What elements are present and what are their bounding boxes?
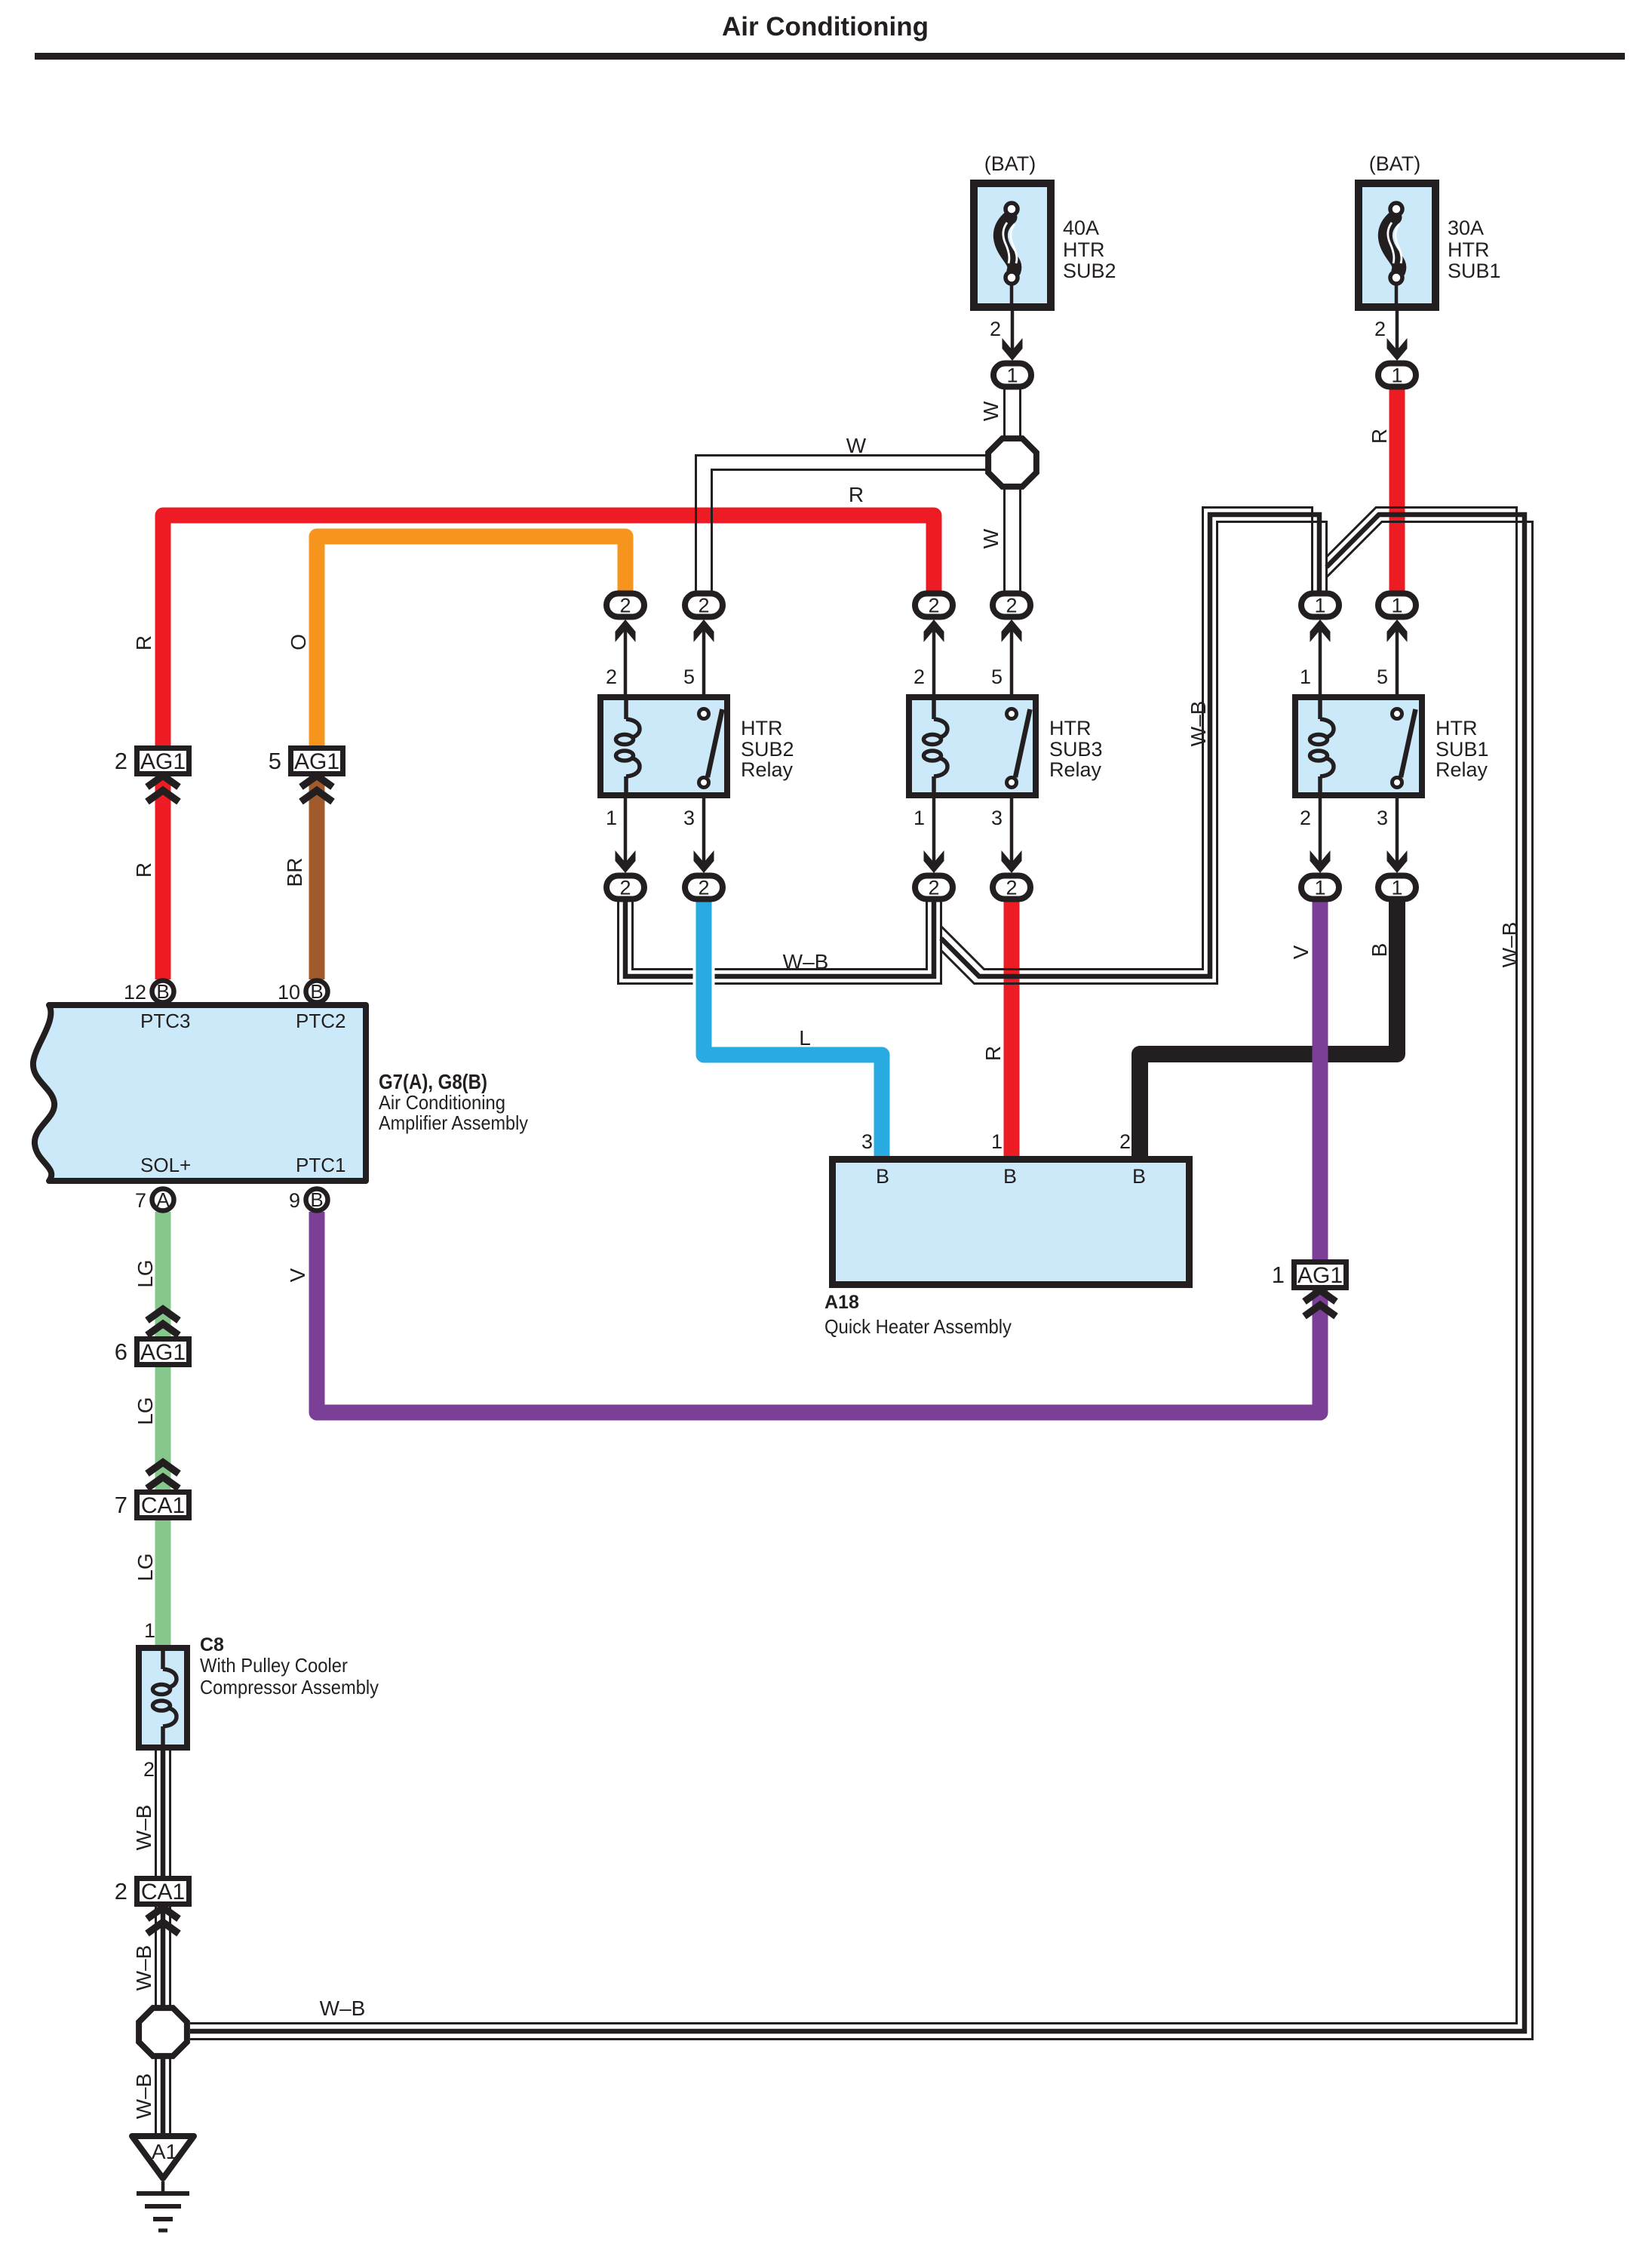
relay HTR SUB2 (600, 666, 794, 829)
svg-text:BR: BR (283, 858, 306, 887)
wire V : relay SUB1 pin 2 down to AG1-1 (1313, 900, 1328, 1261)
svg-text:2: 2 (619, 595, 631, 617)
pin line above relay (x=933) (702, 626, 706, 694)
svg-text:5: 5 (269, 748, 281, 774)
svg-text:B: B (156, 980, 169, 1003)
svg-text:Quick Heater Assembly: Quick Heater Assembly (824, 1315, 1012, 1338)
svg-text:1: 1 (1314, 877, 1325, 899)
wire L : relay SUB2 pin 3 down and right to A18 pin 3 (704, 900, 882, 1157)
svg-text:2: 2 (1300, 807, 1311, 829)
svg-text:5: 5 (1377, 666, 1388, 688)
pin line below relay (x=1341) (1010, 798, 1014, 868)
svg-text:W–B: W–B (1498, 922, 1521, 968)
chevrons below AG1-2 (147, 776, 179, 802)
connector node 1 below fuse SUB2 (993, 364, 1031, 387)
svg-text:W–B: W–B (320, 1997, 366, 2020)
svg-text:B: B (310, 980, 323, 1003)
svg-text:B: B (876, 1165, 889, 1188)
connector AG1 pin 6 (115, 1339, 189, 1365)
heater A18 Quick Heater Assembly (833, 1160, 1190, 1285)
svg-text:2: 2 (990, 318, 1001, 340)
arrow down into connector (x=1238) (924, 850, 944, 873)
pin line below relay (x=1238) (932, 798, 936, 868)
svg-text:Compressor Assembly: Compressor Assembly (200, 1676, 379, 1698)
pin line below relay (x=933) (702, 798, 706, 868)
pin 2 of fuse SUB1 (1396, 311, 1399, 355)
svg-text:W–B: W–B (132, 1805, 155, 1851)
svg-text:2: 2 (1006, 877, 1017, 899)
wire O : AG1-5 up and across to HTR SUB2 relay pin 2 (317, 536, 625, 747)
svg-text:2: 2 (619, 877, 631, 899)
svg-text:7: 7 (115, 1492, 127, 1518)
svg-text:W–B: W–B (132, 2073, 155, 2120)
pin line below relay (x=829) (624, 798, 628, 868)
svg-text:W: W (979, 401, 1003, 421)
connector node 2 above relay (x=829) (606, 594, 644, 617)
svg-text:3: 3 (683, 807, 695, 829)
svg-text:1: 1 (914, 807, 925, 829)
svg-text:2: 2 (606, 666, 617, 688)
svg-text:LG: LG (134, 1553, 157, 1581)
connector CA1 pin 7 (115, 1492, 189, 1518)
connector node 2 below relay (x=829) (606, 876, 644, 899)
pin 9 B (PTC1) (289, 1188, 328, 1212)
wire B : relay SUB1 pin 3 down and left to A18 pin 2 (1140, 900, 1397, 1157)
wire LG : amplifier pin 7 (SOL+) down to AG1-6 (155, 1212, 171, 1338)
svg-text:2: 2 (698, 595, 709, 617)
chevrons above CA1-7 (147, 1462, 179, 1489)
svg-text:1: 1 (1300, 666, 1311, 688)
svg-text:Relay: Relay (1049, 758, 1102, 781)
svg-text:Relay: Relay (741, 758, 794, 781)
chevrons below AG1-1 (1304, 1290, 1336, 1317)
svg-text:A1: A1 (152, 2140, 177, 2163)
wire W-B : relay SUB2 pin 1 joining relay SUB3 pin 1 (619, 900, 941, 984)
svg-text:AG1: AG1 (140, 1340, 186, 1365)
compressor C8 coil (139, 1648, 187, 1748)
svg-text:1: 1 (1391, 877, 1402, 899)
connector node 2 above relay (x=933) (685, 594, 723, 617)
svg-text:SUB1: SUB1 (1436, 738, 1489, 761)
svg-text:2: 2 (698, 877, 709, 899)
wire LG : AG1-6 to CA1-7 (155, 1363, 171, 1491)
svg-text:1: 1 (1391, 595, 1402, 617)
svg-text:2: 2 (143, 1758, 155, 1781)
pin line above relay (x=1852) (1396, 626, 1399, 694)
svg-text:12: 12 (124, 981, 146, 1004)
connector node 1 above relay (x=1750) (1301, 594, 1339, 617)
wire R : amplifier PTC3 / AG1-2 up, across to HTR SUB3 relay pin 2 (163, 515, 934, 747)
svg-text:G7(A), G8(B): G7(A), G8(B) (379, 1070, 487, 1093)
svg-text:Air Conditioning: Air Conditioning (379, 1091, 505, 1114)
relay HTR SUB1 (1295, 666, 1489, 829)
connector node 1 below relay (x=1852) (1378, 876, 1416, 899)
svg-text:2: 2 (1119, 1130, 1131, 1153)
svg-text:(BAT): (BAT) (1369, 152, 1421, 175)
pin 2 of fuse SUB2 (1011, 311, 1015, 355)
svg-text:7: 7 (135, 1189, 146, 1212)
svg-text:PTC3: PTC3 (140, 1010, 190, 1032)
svg-text:PTC1: PTC1 (296, 1154, 345, 1176)
svg-text:(BAT): (BAT) (984, 152, 1036, 175)
svg-text:1: 1 (991, 1130, 1003, 1153)
ECU G7(A),G8(B) Air Conditioning Amplifier Assembly (33, 1005, 366, 1181)
svg-text:2: 2 (115, 748, 127, 774)
svg-text:W: W (979, 528, 1003, 549)
arrow up into connector (x=829) (616, 619, 636, 642)
svg-text:C8: C8 (200, 1634, 224, 1655)
wire R : relay SUB3 pin 3 down to A18 pin 1 (1004, 900, 1020, 1157)
connector CA1 pin 2 (115, 1878, 189, 1904)
pin line above relay (x=1238) (932, 626, 936, 694)
arrow down into connector (x=1750) (1310, 850, 1331, 873)
svg-text:A18: A18 (824, 1292, 859, 1313)
svg-text:3: 3 (1377, 807, 1388, 829)
A18 pin numbers and terminals (861, 1130, 1146, 1188)
svg-text:2: 2 (928, 877, 939, 899)
svg-text:HTR: HTR (1049, 717, 1092, 739)
svg-text:B: B (1132, 1165, 1146, 1188)
arrow down into connector (x=829) (616, 850, 636, 873)
chevrons below AG1-5 (301, 776, 333, 802)
svg-text:AG1: AG1 (294, 749, 339, 774)
pin line below relay (x=1750) (1319, 798, 1322, 868)
svg-text:2: 2 (115, 1878, 127, 1904)
svg-text:HTR: HTR (741, 717, 783, 739)
wire BR : AG1-5 down to amplifier pin 10 (PTC2) (309, 773, 325, 979)
svg-text:W–B: W–B (1187, 701, 1210, 747)
svg-text:B: B (1368, 943, 1391, 958)
svg-text:B: B (1003, 1165, 1017, 1188)
svg-text:Air Conditioning: Air Conditioning (722, 12, 929, 41)
wire V : amplifier pin 9 (PTC1) down, across and up to AG1-1 (317, 1212, 1320, 1413)
svg-text:1: 1 (1314, 595, 1325, 617)
svg-text:9: 9 (289, 1189, 300, 1212)
ground A1 (132, 2136, 194, 2230)
arrow into connector 1 below fuse SUB1 (1387, 338, 1408, 361)
connector node 2 below relay (x=1341) (993, 876, 1030, 899)
svg-text:R: R (132, 635, 155, 650)
svg-text:30A: 30A (1448, 217, 1484, 239)
connector node 2 below relay (x=1238) (915, 876, 953, 899)
svg-text:W: W (846, 434, 867, 457)
arrow up into connector (x=933) (694, 619, 714, 642)
svg-text:1: 1 (606, 807, 617, 829)
connector node 2 above relay (x=1341) (993, 594, 1030, 617)
wire W : junction down to HTR SUB3 relay pin 5 (1005, 487, 1021, 592)
arrow down into connector (x=1341) (1002, 850, 1022, 873)
svg-text:SUB1: SUB1 (1448, 260, 1501, 282)
svg-text:10: 10 (278, 981, 300, 1004)
junction (ground splice W-B) (139, 2008, 187, 2056)
relay HTR SUB3 (909, 666, 1103, 829)
pin line above relay (x=829) (624, 626, 628, 694)
svg-text:AG1: AG1 (140, 749, 186, 774)
connector node 1 below fuse SUB1 (1378, 364, 1416, 387)
svg-text:HTR: HTR (1436, 717, 1478, 739)
svg-text:W–B: W–B (783, 950, 829, 973)
svg-text:O: O (287, 634, 310, 650)
svg-text:CA1: CA1 (141, 1493, 185, 1518)
svg-text:2: 2 (1374, 318, 1386, 340)
wire R : fuse HTR SUB1 down to relay SUB1 pin 5 (1389, 388, 1405, 592)
svg-text:B: B (310, 1188, 323, 1211)
svg-text:40A: 40A (1063, 217, 1099, 239)
svg-text:Amplifier Assembly: Amplifier Assembly (379, 1111, 528, 1134)
svg-text:6: 6 (115, 1339, 127, 1365)
arrow up into connector (x=1341) (1002, 619, 1022, 642)
connector AG1 pin 2 (115, 748, 189, 774)
svg-text:2: 2 (1006, 595, 1017, 617)
pin 12 B (PTC3) (124, 980, 174, 1004)
svg-text:1: 1 (144, 1619, 155, 1642)
connector node 2 below relay (x=933) (685, 876, 723, 899)
arrow down into connector (x=933) (694, 850, 714, 873)
connector node 2 above relay (x=1238) (915, 594, 953, 617)
amplifier terminal names (140, 1010, 345, 1176)
svg-text:V: V (1289, 945, 1313, 959)
connector node 1 above relay (x=1852) (1378, 594, 1416, 617)
connector node 1 below relay (x=1750) (1301, 876, 1339, 899)
svg-text:R: R (132, 862, 155, 878)
svg-text:LG: LG (134, 1259, 157, 1287)
svg-text:1: 1 (1272, 1262, 1285, 1288)
svg-text:Relay: Relay (1436, 758, 1488, 781)
svg-text:3: 3 (991, 807, 1003, 829)
arrow up into connector (x=1852) (1387, 619, 1408, 642)
pin 10 B (PTC2) (278, 980, 328, 1004)
svg-text:R: R (981, 1046, 1005, 1061)
wire W : fuse HTR SUB2 to junction (1005, 388, 1021, 439)
svg-text:SOL+: SOL+ (140, 1154, 191, 1176)
svg-text:R: R (849, 483, 864, 506)
connector AG1 pin 1 (1272, 1262, 1346, 1288)
svg-text:3: 3 (861, 1130, 873, 1153)
junction J (W wire splice) (988, 438, 1036, 487)
svg-text:5: 5 (991, 666, 1003, 688)
chevrons above AG1-6 (147, 1309, 179, 1336)
arrow into connector 1 below fuse SUB2 (1003, 338, 1023, 361)
pin 7 A (SOL+) (135, 1188, 174, 1212)
arrow up into connector (x=1750) (1310, 619, 1331, 642)
arrow up into connector (x=1238) (924, 619, 944, 642)
svg-text:W–B: W–B (132, 1945, 155, 1991)
wire R : AG1-2 down to amplifier pin 12 (PTC3) (155, 773, 171, 979)
pin line above relay (x=1341) (1010, 626, 1014, 694)
pin line below relay (x=1852) (1396, 798, 1399, 868)
svg-text:LG: LG (134, 1397, 157, 1425)
svg-text:A: A (156, 1188, 170, 1211)
svg-text:SUB2: SUB2 (741, 738, 794, 761)
wire W-B : right-side run from relay SUB1 pin 1 down to ground junction (190, 508, 1533, 2040)
arrow down into connector (x=1852) (1387, 850, 1408, 873)
svg-text:PTC2: PTC2 (296, 1010, 345, 1032)
svg-text:HTR: HTR (1063, 238, 1105, 261)
fuse 30A HTR SUB1 (1359, 183, 1436, 311)
wire W-B : branch right, up and over to relay SUB1 pin 1 (941, 508, 1327, 984)
wire W-B : ground junction to ground A1 (156, 2058, 170, 2135)
svg-text:R: R (1368, 429, 1391, 444)
pin line above relay (x=1750) (1319, 626, 1322, 694)
svg-text:V: V (286, 1268, 309, 1282)
wire W-B : compressor C8 pin 2 to CA1-2 (156, 1751, 170, 1877)
connector AG1 pin 5 (269, 748, 343, 774)
svg-text:2: 2 (928, 595, 939, 617)
svg-text:HTR: HTR (1448, 238, 1490, 261)
title rule (35, 53, 1625, 60)
chevrons below CA1-2 (147, 1907, 179, 1934)
wire LG : CA1-7 to compressor C8 pin 1 (155, 1517, 171, 1646)
svg-text:2: 2 (914, 666, 925, 688)
svg-text:SUB2: SUB2 (1063, 260, 1116, 282)
svg-text:SUB3: SUB3 (1049, 738, 1103, 761)
svg-text:AG1: AG1 (1297, 1263, 1343, 1288)
svg-text:CA1: CA1 (141, 1880, 185, 1904)
svg-text:L: L (799, 1026, 811, 1050)
svg-text:With Pulley Cooler: With Pulley Cooler (200, 1654, 348, 1677)
wire W : junction left to HTR SUB2 relay pin 5 (696, 456, 987, 593)
wire W-B : CA1-2 to ground junction (156, 1906, 170, 2006)
fuse 40A HTR SUB2 (974, 183, 1051, 311)
svg-text:5: 5 (683, 666, 695, 688)
svg-text:1: 1 (1391, 364, 1402, 387)
svg-text:1: 1 (1006, 364, 1018, 387)
